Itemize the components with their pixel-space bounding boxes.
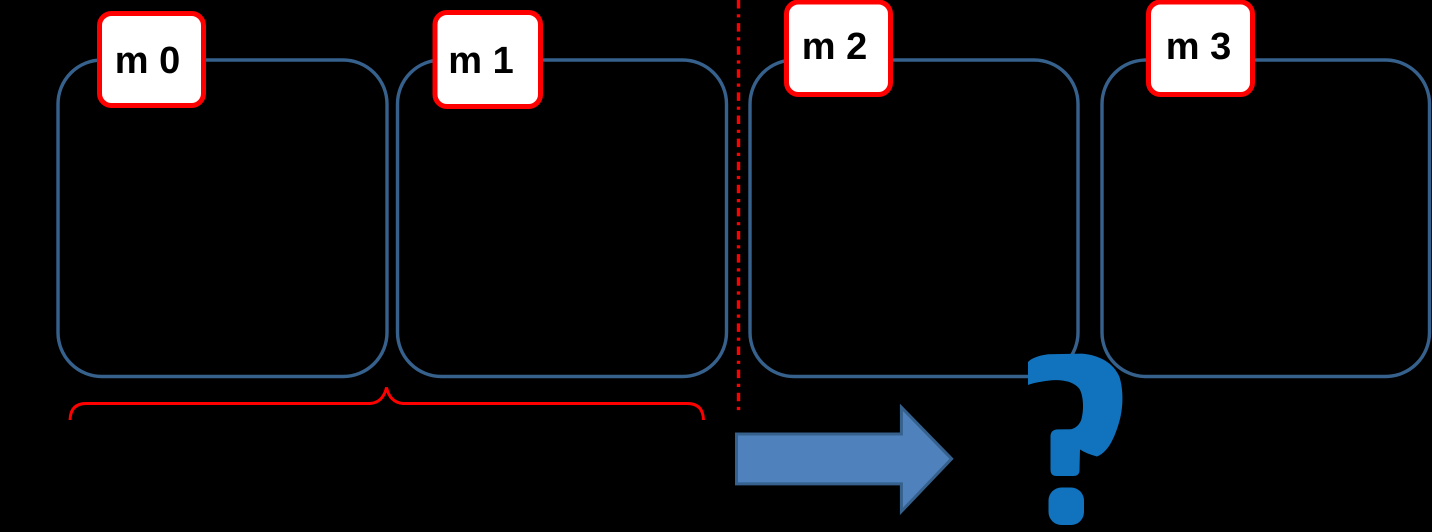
- question mark dot: [1049, 488, 1085, 526]
- box m0: [58, 60, 387, 377]
- box m2: [750, 60, 1078, 377]
- arrow: [737, 407, 952, 511]
- question mark hook: [1028, 354, 1122, 476]
- box m1: [398, 60, 727, 377]
- label m2: [787, 2, 891, 95]
- label m3: [1149, 2, 1253, 95]
- label m0: [100, 14, 204, 106]
- divider dash-dot line: [737, 0, 740, 412]
- label m1: [435, 13, 541, 107]
- brace under m0 and m1: [70, 388, 704, 421]
- box m3: [1102, 60, 1430, 377]
